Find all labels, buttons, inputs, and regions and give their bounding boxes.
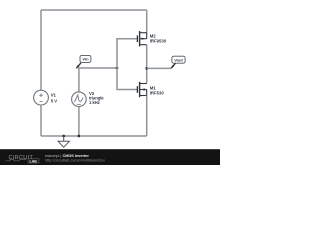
wire: VDD drop to M2 source [146,10,148,33]
svg-text:marcmpi | CMOS Inverter: marcmpi | CMOS Inverter [45,154,90,158]
svg-text:Vin: Vin [82,57,89,62]
junction: Vin gate node dot [116,67,119,70]
wire: VDD top rail [41,9,147,11]
wire: V1 bottom lead [40,105,42,136]
footer bar [0,149,220,165]
wire: bottom ground rail [41,135,147,137]
wire: Vout tap [147,67,171,69]
svg-text:IRF9530: IRF9530 [150,38,167,43]
transistor M2 op PMOS IRF9530 [137,31,146,46]
svg-text:Vout: Vout [174,58,183,63]
wire: left rail from V1+ up to VDD rail [40,10,42,90]
wire: riser from Vin node to M2 gate [117,39,137,68]
svg-text:IRF530: IRF530 [150,90,165,95]
wire: V2 top lead up to Vin node [79,68,117,92]
wire: dropper from Vin node to M1 gate [117,68,137,90]
function generator V2 [72,92,87,107]
svg-text:http://circuitlab.com/c4mr66wk: http://circuitlab.com/c4mr66wkm2vx [45,159,105,163]
wire: output vertical M2 drain to M1 drain [146,45,148,84]
wire: V2 bottom lead [78,107,80,137]
CircuitLab logo [6,155,40,164]
wire: M1 source down to ground rail [146,96,148,137]
svg-text:LAB: LAB [30,159,38,163]
svg-text:1 kHz: 1 kHz [89,100,100,105]
transistor M1 NMOS IRF530 [137,82,146,97]
svg-text:5 V: 5 V [51,99,58,104]
junction: ground dot on bottom rail [62,135,65,138]
svg-text:V1: V1 [51,93,57,98]
voltage source V1 [34,90,49,105]
flag Vin [76,55,91,68]
flag Vout [171,56,185,68]
junction: V2 bottom dot on rail [78,135,81,138]
junction: Vout node dot [145,67,148,70]
ground [58,136,69,147]
